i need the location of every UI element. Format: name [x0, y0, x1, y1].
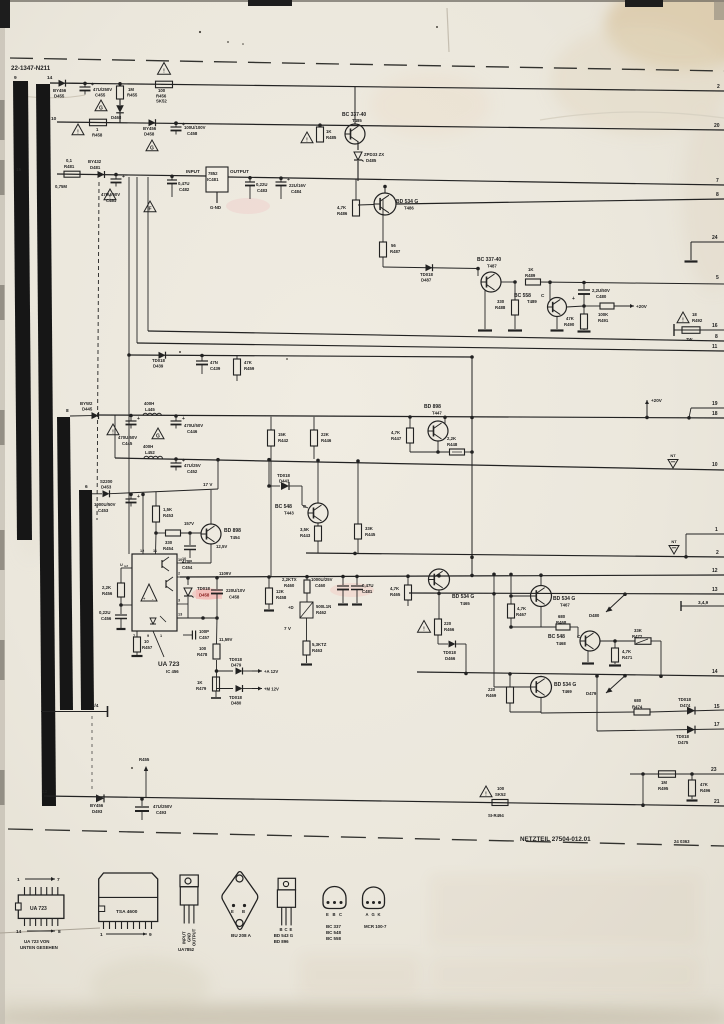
- svg-text:R479: R479: [196, 686, 207, 691]
- IC UA723 box: [132, 554, 177, 631]
- svg-text:12,5V: 12,5V: [216, 544, 227, 549]
- svg-text:TD018: TD018: [229, 695, 243, 700]
- +20V arrow up on rail18: [646, 400, 648, 417]
- svg-text:D458: D458: [199, 593, 210, 598]
- svg-text:MCR 100-7: MCR 100-7: [364, 924, 387, 929]
- svg-text:56: 56: [391, 243, 396, 248]
- svg-text:R442: R442: [278, 438, 289, 443]
- vertical to rail17: [596, 676, 598, 731]
- svg-text:SK52: SK52: [495, 792, 506, 797]
- capacitor C483: [248, 176, 252, 180]
- svg-text:R487: R487: [390, 249, 401, 254]
- warning triangle below R481: [104, 189, 116, 200]
- svg-text:OUTPUT: OUTPUT: [230, 169, 249, 174]
- resistor R465: [406, 574, 410, 578]
- svg-text:15: 15: [714, 704, 720, 710]
- svg-text:T447: T447: [432, 411, 442, 416]
- svg-text:23: 23: [711, 767, 717, 773]
- wire T447 collector: [444, 417, 446, 423]
- svg-text:8: 8: [716, 192, 719, 198]
- package TO18 BC-types: [323, 887, 346, 941]
- svg-text:R495: R495: [658, 786, 669, 791]
- svg-text:TD018: TD018: [678, 697, 692, 702]
- capacitor C455: [83, 82, 87, 86]
- svg-text:BD 534 G: BD 534 G: [554, 682, 576, 688]
- svg-text:R458: R458: [276, 595, 287, 600]
- svg-text:100P: 100P: [199, 629, 209, 634]
- svg-text:D480: D480: [231, 701, 242, 706]
- svg-text:S2200: S2200: [100, 479, 113, 484]
- svg-text:R455: R455: [127, 93, 138, 98]
- svg-text:15K: 15K: [278, 432, 287, 437]
- svg-text:R485: R485: [326, 135, 337, 140]
- T469 base feed: [492, 573, 496, 577]
- svg-text:ref: ref: [124, 564, 128, 568]
- package TO18 MCR100: [363, 887, 388, 929]
- svg-text:B: B: [242, 909, 245, 914]
- fuse SI-R494: [492, 800, 508, 806]
- svg-text:47U/250V: 47U/250V: [153, 804, 172, 809]
- regulator IC481 7852: [206, 167, 228, 192]
- resistor R456 SK52: [156, 81, 173, 88]
- svg-text:47U/250V: 47U/250V: [93, 87, 112, 92]
- wire to T489: [540, 281, 584, 284]
- svg-text:+: +: [182, 416, 185, 422]
- svg-text:NT: NT: [670, 453, 676, 458]
- resistor R455: [118, 82, 122, 86]
- svg-text:UA 723: UA 723: [158, 661, 180, 668]
- svg-text:14: 14: [16, 929, 22, 935]
- svg-text:220: 220: [444, 621, 452, 626]
- svg-text:TD018: TD018: [152, 358, 166, 363]
- resistor R467: [509, 573, 513, 577]
- svg-text:1M: 1M: [661, 780, 667, 785]
- pin 19 stub corner: [691, 407, 724, 409]
- svg-text:22U/16V: 22U/16V: [289, 183, 306, 188]
- resistor R487: [382, 200, 384, 242]
- svg-text:100U/100V: 100U/100V: [184, 125, 206, 130]
- dashed coupling line: [97, 182, 99, 520]
- svg-text:470U/50V: 470U/50V: [118, 435, 137, 440]
- svg-text:TD018: TD018: [197, 586, 211, 591]
- svg-text:C: C: [339, 912, 342, 917]
- wire rail 10: [115, 458, 724, 470]
- capacitor C480: [583, 283, 585, 290]
- wire T454 emitter to IC pin10: [210, 545, 212, 564]
- svg-text:4,7K: 4,7K: [517, 606, 527, 611]
- svg-text:10: 10: [144, 639, 149, 644]
- transistor T465 BD534: [429, 569, 450, 590]
- pin 16 stub: [673, 324, 675, 336]
- svg-text:3,4,9: 3,4,9: [698, 600, 709, 605]
- svg-text:BY456: BY456: [53, 88, 67, 93]
- wire rail 2: [306, 553, 724, 557]
- capacitor C458 220U/10V: [215, 576, 219, 580]
- svg-text:C458: C458: [187, 131, 198, 136]
- svg-text:8: 8: [715, 334, 718, 340]
- svg-text:R455: R455: [139, 757, 150, 762]
- warning triangle left of R485: [301, 132, 313, 143]
- svg-text:9: 9: [14, 75, 17, 81]
- svg-text:A: A: [366, 912, 369, 917]
- svg-text:C454: C454: [182, 565, 193, 570]
- wire R453 to pin11: [155, 533, 158, 554]
- svg-text:ZPD33 ZX: ZPD33 ZX: [364, 152, 384, 157]
- bottom dashed border: [8, 829, 724, 846]
- resistor R458: [90, 119, 107, 126]
- svg-text:D453: D453: [101, 485, 112, 490]
- svg-text:680: 680: [558, 614, 566, 619]
- svg-text:8: 8: [58, 929, 61, 935]
- svg-text:D458: D458: [144, 132, 155, 137]
- svg-text:7: 7: [716, 178, 719, 184]
- svg-text:4,7K: 4,7K: [337, 205, 347, 210]
- loop vertical C: [147, 177, 149, 331]
- wire rail 21: [44, 796, 724, 806]
- resistor R492 7W: [682, 327, 700, 334]
- svg-text:470U/50V: 470U/50V: [101, 192, 120, 197]
- svg-text:BD 534 G: BD 534 G: [452, 594, 474, 600]
- loop vertical B: [136, 177, 138, 343]
- svg-text:C445: C445: [122, 441, 133, 446]
- svg-text:47K: 47K: [700, 782, 709, 787]
- svg-text:500L1N: 500L1N: [316, 604, 331, 609]
- svg-text:0,22U: 0,22U: [256, 182, 267, 187]
- capacitor C445: [129, 414, 133, 418]
- svg-text:6: 6: [85, 484, 88, 490]
- svg-text:D487: D487: [421, 278, 432, 283]
- svg-text:D479: D479: [231, 663, 242, 668]
- svg-text:1,5K: 1,5K: [163, 507, 173, 512]
- svg-text:220: 220: [488, 687, 496, 692]
- UA723 internal opamp: [141, 584, 157, 601]
- svg-text:16: 16: [712, 323, 718, 329]
- zener D485: [357, 142, 359, 150]
- svg-text:2/4: 2/4: [92, 703, 99, 708]
- svg-text:4,7K: 4,7K: [622, 649, 632, 654]
- package TO220 UA7852: [178, 875, 198, 952]
- svg-text:4,7K: 4,7K: [391, 430, 401, 435]
- resistor R495 1M: [659, 771, 676, 778]
- capacitor C446: [174, 414, 178, 418]
- vertical to UA723 pin12: [141, 493, 145, 497]
- diode D458: [149, 119, 156, 126]
- diode D443: [267, 484, 271, 488]
- svg-text:SK52: SK52: [156, 99, 167, 104]
- top dashed border: [10, 58, 724, 71]
- resistor R471: [613, 639, 617, 643]
- svg-text:17 V: 17 V: [203, 482, 213, 487]
- svg-text:TD018: TD018: [277, 473, 291, 478]
- svg-text:10: 10: [182, 557, 186, 561]
- svg-text:4,7K: 4,7K: [390, 586, 400, 591]
- svg-text:9: 9: [149, 932, 152, 938]
- capacitor C457: [177, 625, 183, 631]
- svg-text:R443: R443: [300, 533, 311, 538]
- svg-text:G: G: [150, 145, 154, 151]
- svg-text:R456: R456: [156, 93, 167, 98]
- wire T454 collector: [210, 490, 212, 524]
- wire rail 8-mid: [148, 331, 724, 341]
- svg-text:22-1347-N211: 22-1347-N211: [11, 65, 51, 72]
- svg-text:G: G: [99, 105, 103, 111]
- svg-text:R488: R488: [495, 305, 506, 310]
- svg-text:5: 5: [716, 275, 719, 281]
- svg-text:L445: L445: [145, 407, 155, 412]
- svg-text:7W: 7W: [686, 337, 693, 342]
- rail 15: [541, 712, 634, 713]
- wire rail W4 pin8: [396, 199, 724, 204]
- svg-text:C493: C493: [156, 810, 167, 815]
- inductor L452: [144, 456, 162, 458]
- svg-text:47N: 47N: [210, 360, 218, 365]
- svg-text:+20V: +20V: [651, 398, 663, 403]
- svg-text:G: G: [156, 433, 160, 439]
- svg-text:T467: T467: [560, 603, 570, 608]
- svg-text:T489: T489: [527, 299, 537, 304]
- binding bar 2: [36, 84, 56, 806]
- wire rail 12: [180, 575, 724, 577]
- svg-text:8: 8: [66, 408, 69, 414]
- T447 emitter row: [410, 451, 449, 453]
- capacitor C481: [114, 173, 118, 177]
- svg-text:C452: C452: [187, 469, 198, 474]
- svg-text:F: F: [148, 206, 151, 212]
- resistor R456 2.2K: [121, 567, 132, 569]
- svg-text:2,2K: 2,2K: [102, 585, 112, 590]
- svg-text:TD018: TD018: [420, 272, 434, 277]
- +20V arrow right: [614, 305, 634, 307]
- svg-text:400H: 400H: [143, 444, 153, 449]
- resistor R466 column: [438, 593, 440, 619]
- wire R487 to D487: [382, 257, 384, 267]
- svg-text:12: 12: [140, 549, 144, 553]
- left page edge shadow: [0, 0, 5, 1024]
- warning triangle above R456: [158, 63, 171, 75]
- resistor R445: [356, 459, 360, 463]
- warning triangle R466: [418, 621, 431, 633]
- wire rail W5: [129, 355, 472, 357]
- svg-text:BC 337: BC 337: [326, 924, 341, 929]
- svg-text:2,2U/50V: 2,2U/50V: [592, 288, 610, 293]
- svg-text:E: E: [326, 912, 329, 917]
- warning triangle C446: [152, 428, 164, 439]
- svg-text:BC 548: BC 548: [275, 504, 292, 510]
- resistor R472 33K: [600, 640, 635, 642]
- UA723 pin stubs right: [177, 562, 180, 564]
- svg-text:C480: C480: [596, 294, 607, 299]
- diode D466: [437, 635, 439, 644]
- pin 1 stub: [686, 533, 724, 535]
- wire pin3-13 row: [188, 617, 217, 619]
- svg-text:11,59V: 11,59V: [219, 637, 233, 642]
- svg-text:R446: R446: [321, 438, 332, 443]
- svg-text:R467: R467: [516, 612, 527, 617]
- package TDA4600: [99, 873, 158, 938]
- wire T487 emitter to ground: [484, 290, 486, 329]
- svg-text:47K: 47K: [566, 316, 575, 321]
- svg-text:D493: D493: [92, 809, 103, 814]
- ground T487: [478, 329, 492, 331]
- svg-text:+D: +D: [288, 605, 294, 610]
- svg-text:5,3KTZ: 5,3KTZ: [312, 642, 327, 647]
- svg-text:UA 723: UA 723: [30, 906, 47, 912]
- wire rail 14: [417, 672, 724, 676]
- svg-text:C484: C484: [291, 189, 302, 194]
- svg-text:D475: D475: [678, 740, 689, 745]
- resistor R491: [584, 305, 600, 307]
- svg-text:C453: C453: [98, 508, 109, 513]
- svg-text:100: 100: [497, 786, 505, 791]
- svg-text:UA 723 VON: UA 723 VON: [24, 939, 49, 944]
- wire rail W3 pin7: [57, 174, 206, 176]
- svg-text:R458: R458: [92, 133, 103, 138]
- transistor T469 BD534: [531, 677, 552, 698]
- warning triangle below D455: [95, 100, 107, 111]
- svg-text:470U/50V: 470U/50V: [184, 423, 203, 428]
- svg-text:C460: C460: [315, 583, 326, 588]
- wire T468 emitter ground: [587, 651, 589, 663]
- svg-text:20: 20: [714, 123, 720, 129]
- svg-text:NT: NT: [671, 539, 677, 544]
- svg-text:0,1: 0,1: [66, 158, 73, 163]
- svg-text:T469: T469: [562, 689, 572, 694]
- svg-text:T454: T454: [230, 535, 240, 540]
- transistor T454 BD898: [201, 524, 221, 544]
- svg-text:R481: R481: [64, 164, 75, 169]
- top page edge marks: [0, 0, 724, 2]
- wire R448 to V472: [464, 451, 472, 453]
- wire T486 base from R486: [358, 204, 374, 207]
- svg-text:3: 3: [178, 599, 180, 603]
- svg-text:R465: R465: [390, 592, 401, 597]
- resistor R469 220: [508, 672, 512, 676]
- svg-text:C455: C455: [95, 93, 106, 98]
- binding bar 1: [13, 81, 32, 540]
- svg-text:R469: R469: [486, 693, 497, 698]
- svg-text:330: 330: [497, 299, 505, 304]
- svg-text:7852: 7852: [208, 171, 218, 176]
- svg-text:17: 17: [714, 722, 720, 728]
- svg-text:1: 1: [17, 877, 20, 883]
- svg-text:D479: D479: [586, 691, 597, 696]
- wire T489 collector: [567, 306, 585, 307]
- svg-text:14: 14: [712, 669, 718, 675]
- svg-text:3,5K: 3,5K: [300, 527, 310, 532]
- svg-text:11: 11: [153, 549, 157, 553]
- svg-text:G-ND: G-ND: [210, 205, 221, 210]
- svg-text:TD018: TD018: [229, 657, 243, 662]
- svg-text:+A 12V: +A 12V: [264, 669, 278, 674]
- svg-text:K: K: [378, 912, 381, 917]
- zener D458 TD018: [187, 578, 189, 585]
- junction D480 arrow: [623, 592, 627, 596]
- resistor R442 column: [270, 417, 272, 430]
- svg-text:24 0363: 24 0363: [674, 839, 690, 844]
- svg-text:2: 2: [716, 550, 719, 556]
- svg-text:1: 1: [100, 932, 103, 938]
- svg-text:IC 456: IC 456: [166, 669, 179, 674]
- svg-text:D468: D468: [111, 115, 122, 120]
- svg-text:R490: R490: [564, 322, 575, 327]
- warning triangle C445: [107, 424, 119, 435]
- svg-text:BD 898: BD 898: [224, 528, 241, 534]
- svg-text:BD 543 G: BD 543 G: [274, 933, 294, 938]
- svg-text:T487: T487: [487, 264, 497, 269]
- diode D439: [127, 353, 131, 357]
- svg-text:UNTEN GESEHEN: UNTEN GESEHEN: [20, 945, 58, 950]
- svg-text:2: 2: [717, 84, 720, 90]
- diode D481: [98, 171, 105, 178]
- resistor R488: [513, 280, 517, 284]
- svg-text:G: G: [372, 912, 375, 917]
- resistor R458 12K: [267, 575, 271, 579]
- capacitor C484: [279, 176, 283, 180]
- pin 3-4-9 stub: [680, 601, 682, 611]
- diode D453 S2200: [92, 493, 102, 495]
- svg-text:BC 558: BC 558: [326, 936, 341, 941]
- svg-text:2: 2: [178, 572, 180, 576]
- svg-text:0,47U: 0,47U: [178, 181, 189, 186]
- capacitor C453: [129, 493, 133, 497]
- svg-text:L452: L452: [145, 450, 155, 455]
- svg-text:D443: D443: [279, 479, 290, 484]
- svg-text:1: 1: [715, 527, 718, 533]
- resistor R457: [136, 631, 138, 637]
- vertical V269: [267, 458, 271, 462]
- svg-text:7: 7: [57, 877, 60, 883]
- warning triangle below C481: [144, 201, 156, 212]
- svg-text:BD 898: BD 898: [424, 404, 441, 410]
- svg-text:R462: R462: [316, 610, 327, 615]
- svg-text:D445: D445: [82, 407, 93, 412]
- resistor R443: [317, 524, 319, 527]
- svg-text:21: 21: [714, 799, 720, 805]
- svg-text:157V: 157V: [184, 521, 194, 526]
- resistor R489: [526, 279, 541, 285]
- svg-text:R492: R492: [692, 318, 703, 323]
- svg-text:+: +: [122, 174, 125, 180]
- svg-text:+: +: [137, 416, 140, 422]
- svg-text:BC 337-40: BC 337-40: [477, 257, 501, 263]
- svg-text:U: U: [120, 563, 123, 567]
- svg-text:R456: R456: [102, 591, 113, 596]
- capacitor C452: [174, 457, 178, 461]
- dashed coupling line lower: [91, 716, 93, 793]
- wire T465 emitter: [438, 590, 440, 593]
- svg-text:E: E: [290, 927, 293, 932]
- svg-text:SI-R494: SI-R494: [488, 813, 504, 818]
- svg-text:R454: R454: [163, 546, 174, 551]
- svg-text:16: 16: [16, 167, 22, 173]
- resistor R468 680: [540, 607, 542, 628]
- svg-text:C481: C481: [362, 589, 373, 594]
- svg-text:R496: R496: [700, 788, 711, 793]
- svg-text:7 V: 7 V: [284, 626, 292, 631]
- svg-text:100K: 100K: [598, 312, 609, 317]
- svg-text:R453: R453: [163, 513, 174, 518]
- package DIP14 UA723: [16, 877, 64, 950]
- UA723 label: [153, 631, 164, 657]
- diode D493 BY456: [96, 794, 104, 802]
- svg-text:100: 100: [158, 88, 166, 93]
- svg-text:10: 10: [178, 558, 182, 562]
- vertical feed to L452 row: [114, 415, 116, 458]
- svg-text:R478: R478: [197, 652, 208, 657]
- svg-text:D485: D485: [366, 158, 377, 163]
- T467 base wire: [511, 595, 531, 597]
- svg-text:T443: T443: [284, 511, 294, 516]
